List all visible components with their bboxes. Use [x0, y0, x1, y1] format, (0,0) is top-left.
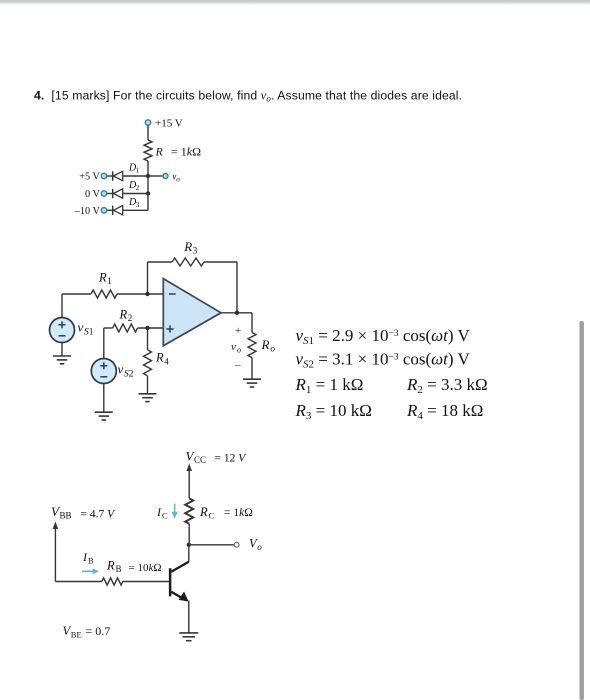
svg-text:CC: CC: [194, 455, 206, 465]
svg-text:C: C: [209, 511, 215, 521]
node top output junction: [146, 174, 150, 178]
label R = 1kO value: [155, 145, 202, 159]
svg-text:3: 3: [136, 201, 140, 209]
source vS1: [50, 318, 75, 343]
label RB value: [106, 559, 162, 575]
label vS2 equation: [296, 350, 471, 371]
svg-text:+5 V: +5 V: [79, 172, 100, 183]
arrow IB cyan: [82, 568, 99, 574]
wire: [107, 209, 113, 211]
op-amp U1: [163, 279, 221, 346]
terminal +5 V input: [79, 172, 106, 183]
wire: [147, 262, 149, 294]
label vS1 equation: [296, 326, 471, 347]
label R3: [183, 239, 198, 255]
svg-text:B: B: [88, 556, 94, 566]
svg-text:= 10kΩ: = 10kΩ: [129, 562, 162, 574]
svg-text:R: R: [155, 145, 164, 159]
resistor RC: [185, 498, 193, 523]
svg-text:+: +: [235, 325, 241, 337]
wire: [117, 293, 163, 295]
label IB current: [82, 550, 94, 566]
svg-text:–: –: [234, 359, 241, 371]
label vS2: [118, 362, 134, 380]
diode D1: [113, 171, 123, 180]
svg-text:S2: S2: [124, 369, 134, 379]
svg-text:R: R: [98, 271, 107, 285]
ground R4 ground: [139, 394, 157, 402]
svg-text:o: o: [237, 346, 241, 355]
wire: [123, 175, 148, 177]
svg-text:–10 V: –10 V: [74, 206, 101, 217]
wire VCC arrow: [186, 464, 192, 499]
svg-text:v: v: [231, 341, 236, 353]
svg-text:R: R: [155, 351, 164, 365]
wire: [61, 294, 63, 318]
wire: [251, 358, 253, 380]
node output junction: [235, 311, 239, 315]
wire: [103, 328, 105, 359]
node collector junction: [187, 543, 191, 547]
label R4: [155, 351, 169, 367]
svg-text:= 12 V: = 12 V: [215, 453, 248, 465]
svg-text:R: R: [261, 337, 270, 352]
wire: [147, 176, 149, 210]
svg-text:1: 1: [107, 276, 112, 286]
wire: [148, 175, 163, 177]
wire: [123, 581, 169, 583]
wire: [123, 193, 148, 195]
svg-text:+15 V: +15 V: [155, 118, 183, 130]
ground Ro ground: [243, 379, 261, 387]
svg-text:o: o: [257, 542, 262, 552]
label D1: [128, 163, 140, 175]
wire: [138, 327, 164, 329]
label vS1: [78, 320, 94, 338]
svg-text:B: B: [116, 564, 122, 574]
svg-text:C: C: [162, 511, 168, 521]
label vo output voltage: [231, 325, 241, 371]
arrow IC cyan: [172, 504, 178, 519]
wire: [188, 601, 190, 633]
wire: [147, 161, 149, 176]
label VCC supply: [186, 449, 248, 466]
wire: [188, 524, 190, 545]
label R1: [98, 271, 112, 287]
svg-text:= 1kΩ: = 1kΩ: [224, 507, 253, 519]
wire: [107, 175, 113, 177]
node noninverting input junction: [145, 326, 149, 330]
label D2: [128, 180, 140, 192]
wire: [104, 327, 113, 329]
ground emitter ground: [179, 633, 198, 641]
wire: [103, 384, 105, 413]
resistor R2: [113, 324, 138, 332]
wire: [148, 261, 173, 263]
svg-text:BE: BE: [71, 630, 82, 640]
terminal -10 V input: [74, 206, 107, 217]
terminal +15 V supply: [145, 118, 182, 130]
label VBE value: [63, 624, 111, 640]
wire: [221, 312, 252, 314]
svg-text:4: 4: [164, 357, 169, 367]
wire: [251, 313, 253, 333]
wire: [123, 209, 148, 211]
label R2 value: [406, 375, 488, 396]
svg-text:= 0.7: = 0.7: [86, 624, 111, 638]
resistor R1: [91, 290, 117, 298]
wire: [147, 125, 149, 140]
label VBB supply: [51, 504, 116, 521]
svg-text:= 1kΩ: = 1kΩ: [171, 145, 201, 159]
label D3: [128, 197, 140, 209]
svg-text:R: R: [183, 239, 192, 254]
diode D2: [113, 189, 123, 198]
title heading: [34, 89, 462, 104]
right scrollbar: [580, 321, 584, 700]
svg-text:R: R: [119, 308, 128, 322]
diode D3: [113, 206, 123, 215]
wire: [62, 293, 91, 295]
wire: [236, 262, 238, 313]
wire: [189, 544, 234, 546]
label R2: [119, 308, 133, 324]
wire: [55, 581, 102, 583]
transistor Q1: [170, 545, 189, 602]
ground vS2 ground: [95, 412, 113, 420]
wire: [204, 261, 237, 263]
wire: [147, 328, 149, 350]
svg-text:o: o: [270, 345, 275, 355]
svg-text:vS1 = 2.9 × 10−3 cos(ωt) V: vS1 = 2.9 × 10−3 cos(ωt) V: [296, 326, 471, 347]
svg-text:vS2 = 3.1 × 10−3 cos(ωt) V: vS2 = 3.1 × 10−3 cos(ωt) V: [296, 350, 471, 371]
resistor R4: [144, 350, 152, 376]
node D2 junction: [146, 191, 150, 195]
wire: [61, 343, 63, 357]
wire: [147, 376, 149, 394]
svg-text:2: 2: [128, 313, 133, 323]
svg-text:3: 3: [193, 245, 198, 255]
resistor RB: [102, 578, 123, 585]
svg-text:0 V: 0 V: [85, 189, 101, 200]
label IC current: [156, 505, 168, 521]
svg-text:R1 = 1 kΩ: R1 = 1 kΩ: [295, 375, 364, 396]
svg-text:BB: BB: [60, 511, 72, 521]
svg-text:v: v: [78, 320, 84, 335]
label Ro: [261, 337, 276, 355]
wire: [107, 193, 113, 195]
svg-text:v: v: [118, 362, 124, 377]
svg-text:4. [15 marks] For the circuit: 4. [15 marks] For the circuits below, fi…: [34, 89, 462, 104]
source vS2: [91, 359, 116, 384]
svg-text:1: 1: [136, 167, 140, 175]
svg-text:R: R: [106, 559, 115, 573]
svg-text:2: 2: [136, 184, 140, 192]
label R4 value: [406, 401, 483, 422]
terminal 0 V input: [85, 189, 107, 200]
node inverting input junction: [145, 292, 149, 296]
terminal Vo output: [234, 537, 262, 553]
wire VBB arrow: [53, 522, 59, 582]
resistor R: [144, 140, 152, 161]
label R3 value: [295, 401, 372, 422]
svg-text:= 4.7 V: = 4.7 V: [81, 509, 117, 521]
ground vS1 ground: [53, 356, 71, 364]
svg-text:S1: S1: [84, 327, 94, 337]
terminal vo output: [163, 171, 180, 183]
resistor R3: [172, 258, 204, 266]
svg-text:R: R: [199, 505, 208, 519]
label R1 value: [295, 375, 364, 396]
resistor Ro: [248, 333, 256, 358]
label RC value: [199, 505, 253, 521]
